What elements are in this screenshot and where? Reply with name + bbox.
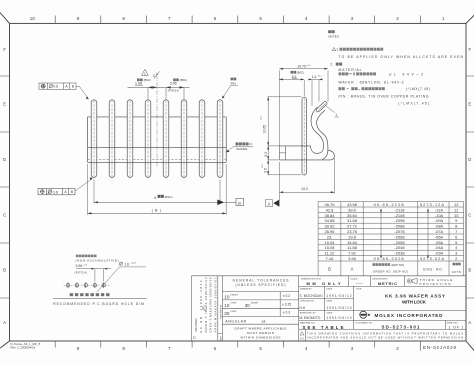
svg-text:(ºLMX(7,45): (ºLMX(7,45) bbox=[406, 87, 430, 91]
assembly centerline (dash-dot) bbox=[156, 75, 158, 167]
note 1 japanese line bbox=[332, 47, 336, 50]
right side rows bbox=[299, 286, 466, 329]
svg-text:CKTS: CKTS bbox=[452, 270, 461, 274]
svg-text:19.04: 19.04 bbox=[324, 240, 335, 245]
svg-text:DRAWN BY: DRAWN BY bbox=[300, 287, 312, 290]
svg-text:±3: ±3 bbox=[262, 319, 266, 323]
svg-text:-10A: -10A bbox=[435, 213, 444, 218]
left vertical dims 10.65 / 3.2 / 3.5 bbox=[268, 97, 302, 175]
svg-text:26.96: 26.96 bbox=[324, 229, 335, 234]
svg-text:TITLE: TITLE bbox=[356, 289, 362, 291]
svg-text:CHECKED BY: CHECKED BY bbox=[300, 301, 315, 303]
svg-text:30.92: 30.92 bbox=[324, 224, 335, 229]
svg-text:30: 30 bbox=[245, 303, 251, 308]
svg-text:-2048: -2048 bbox=[394, 245, 405, 250]
svg-text:(BSC): (BSC) bbox=[297, 71, 304, 75]
svg-text:APPROVED BY: APPROVED BY bbox=[300, 312, 316, 315]
section marker A bbox=[266, 200, 273, 207]
svg-text:8: 8 bbox=[122, 16, 125, 21]
svg-text:C: C bbox=[3, 213, 6, 218]
svg-text:1.4: 1.4 bbox=[312, 75, 317, 79]
svg-text:15.08: 15.08 bbox=[324, 245, 335, 250]
svg-text:23.76: 23.76 bbox=[347, 229, 358, 234]
svg-text:F: F bbox=[3, 47, 6, 52]
svg-text:PROJECTION: PROJECTION bbox=[420, 282, 451, 286]
third angle projection cell bbox=[407, 279, 417, 284]
proprietary note bbox=[300, 332, 304, 335]
svg-text:3: 3 bbox=[351, 16, 354, 21]
svg-text:10.75: 10.75 bbox=[297, 64, 306, 68]
svg-text:DESCRIPTION: DESCRIPTION bbox=[221, 304, 223, 318]
svg-text:30: 30 bbox=[224, 311, 230, 316]
svg-text:A: A bbox=[351, 267, 354, 272]
svg-text:-2068: -2068 bbox=[394, 234, 405, 239]
svg-text:31.68: 31.68 bbox=[347, 218, 358, 223]
wafer body top edge (behind pins) bbox=[88, 116, 227, 118]
svg-text:3.5: 3.5 bbox=[264, 168, 268, 173]
side pin bbox=[302, 97, 306, 175]
svg-text:A: A bbox=[3, 320, 6, 325]
revision strip bbox=[218, 276, 223, 341]
svg-text:UNDER: UNDER bbox=[251, 303, 259, 305]
svg-text:9: 9 bbox=[77, 16, 80, 21]
svg-text:UL 94V–2: UL 94V–2 bbox=[389, 72, 423, 76]
svg-text:( B ): ( B ) bbox=[152, 209, 162, 213]
svg-text:11.88: 11.88 bbox=[347, 245, 357, 250]
svg-text:3.2: 3.2 bbox=[264, 152, 268, 157]
svg-text:THIS DRAWING CONTAINS INFORMAT: THIS DRAWING CONTAINS INFORMATION THAT I… bbox=[307, 331, 463, 335]
svg-text:10.2: 10.2 bbox=[301, 187, 308, 191]
svg-text:2: 2 bbox=[396, 16, 399, 21]
svg-text:19.8: 19.8 bbox=[348, 234, 357, 239]
svg-text:SHEET NO.: SHEET NO. bbox=[447, 323, 459, 325]
wafer slab top edge with U-dip bbox=[280, 146, 324, 154]
svg-text:09-65-2128: 09-65-2128 bbox=[374, 202, 405, 207]
pin callout label bbox=[222, 78, 238, 99]
svg-text:B: B bbox=[3, 268, 6, 273]
svg-text:EN-02JA029: EN-02JA029 bbox=[423, 345, 456, 350]
svg-text:C: C bbox=[193, 335, 196, 340]
svg-text:2.: 2. bbox=[330, 63, 333, 67]
svg-text:C: C bbox=[468, 213, 471, 218]
svg-text:1991/06/10: 1991/06/10 bbox=[327, 306, 352, 310]
wafer hidden line (dashed, behind pins) bbox=[88, 159, 227, 161]
svg-text:WAFER : 66NYLON, UL-94V-2: WAFER : 66NYLON, UL-94V-2 bbox=[339, 81, 404, 85]
svg-text:REVISED: REVISED bbox=[194, 317, 198, 331]
pins 1-8 bbox=[91, 100, 223, 178]
svg-text:(EDP NO): (EDP NO) bbox=[392, 263, 405, 267]
svg-text:WITH LOCK: WITH LOCK bbox=[402, 299, 427, 304]
svg-text:-04A: -04A bbox=[435, 245, 444, 250]
svg-text:-03A: -03A bbox=[435, 251, 444, 256]
svg-text:46.76: 46.76 bbox=[324, 202, 335, 207]
svg-text:WITHIN DIMENSIONS: WITHIN DIMENSIONS bbox=[241, 336, 281, 340]
svg-text:1991/06/10: 1991/06/10 bbox=[327, 316, 352, 320]
dim A BSC (pin1 to pin8 centers) with datum B bbox=[94, 180, 243, 206]
svg-text:DATE: DATE bbox=[327, 312, 333, 315]
svg-text:27.72: 27.72 bbox=[347, 224, 358, 229]
svg-text:A: A bbox=[268, 201, 271, 206]
outer box bbox=[192, 276, 467, 341]
svg-text:(BSC): (BSC) bbox=[165, 195, 173, 199]
ditto arrows bbox=[381, 210, 428, 258]
svg-text:8: 8 bbox=[122, 346, 125, 351]
svg-text:34.88: 34.88 bbox=[324, 218, 335, 223]
svg-text:1: 1 bbox=[144, 72, 146, 76]
svg-text:L: L bbox=[156, 72, 158, 76]
svg-text:D: D bbox=[468, 157, 471, 162]
zone letters right bbox=[468, 47, 471, 325]
svg-text:4: 4 bbox=[305, 346, 308, 351]
svg-text:5: 5 bbox=[259, 16, 262, 21]
svg-text:(NON-ACCUMULATIVE): (NON-ACCUMULATIVE) bbox=[76, 259, 119, 263]
svg-text:(PITCH): (PITCH) bbox=[75, 271, 87, 275]
wafer slab bottom edge and right rounded corner bbox=[280, 151, 335, 160]
svg-text:UNDER: UNDER bbox=[230, 294, 238, 296]
svg-text:11.12: 11.12 bbox=[325, 251, 335, 256]
svg-text:1.8: 1.8 bbox=[124, 262, 129, 266]
svg-text:KK 3.96 WAFER ASSY: KK 3.96 WAFER ASSY bbox=[385, 293, 445, 298]
svg-text:-11A: -11A bbox=[435, 207, 443, 212]
svg-text:5273-02A: 5273-02A bbox=[420, 256, 444, 261]
svg-text:DOCUMENT NO.: DOCUMENT NO. bbox=[356, 323, 373, 325]
wafer slab left edge and step bbox=[280, 146, 286, 160]
svg-text:WAFER: WAFER bbox=[236, 147, 248, 151]
svg-text:9: 9 bbox=[77, 346, 80, 351]
svg-text:± 0.25: ± 0.25 bbox=[282, 303, 291, 307]
lock arm outer edge bbox=[311, 107, 324, 146]
svg-text:METRIC: METRIC bbox=[378, 281, 397, 286]
svg-text:(UNLESS SPECIFIED): (UNLESS SPECIFIED) bbox=[236, 283, 286, 287]
corner cut bottom-right bbox=[466, 341, 474, 351]
zone ticks top bbox=[55, 16, 420, 24]
svg-text:5.6: 5.6 bbox=[292, 75, 297, 79]
svg-text:(BSC): (BSC) bbox=[144, 78, 151, 82]
svg-text:DRWN.Y.IBATA 2009/06/23: DRWN.Y.IBATA 2009/06/23 bbox=[204, 277, 208, 332]
svg-text:Rev. C 2008/04/15: Rev. C 2008/04/15 bbox=[11, 346, 36, 350]
svg-text:43.56: 43.56 bbox=[347, 202, 358, 207]
svg-text:DATE: DATE bbox=[327, 300, 333, 303]
svg-text:B: B bbox=[328, 267, 331, 272]
revision strip rotated text bbox=[194, 277, 222, 340]
svg-text:TO BE APPLIED ONLY WHEN ALLCKT: TO BE APPLIED ONLY WHEN ALLCKTS ARE EVEN… bbox=[339, 55, 466, 59]
svg-text:-05A: -05A bbox=[435, 240, 444, 245]
svg-text:0.6: 0.6 bbox=[53, 85, 58, 89]
note flag triangle 1 bbox=[142, 69, 149, 76]
holes row bbox=[64, 284, 110, 286]
corner cut top-left bbox=[0, 13, 10, 24]
svg-text:SCALE: SCALE bbox=[350, 277, 358, 280]
svg-text:10.65: 10.65 bbox=[262, 125, 266, 134]
zone ticks right bbox=[466, 76, 474, 298]
svg-text:PIN : BRASS, TIN OVER COPPER P: PIN : BRASS, TIN OVER COPPER PLATING bbox=[339, 94, 429, 98]
svg-text:3.96: 3.96 bbox=[76, 264, 83, 268]
svg-text:GENERAL TOLERANCES: GENERAL TOLERANCES bbox=[233, 279, 290, 283]
hole dia callout bbox=[119, 262, 122, 265]
svg-text:A 3: A 3 bbox=[300, 337, 304, 341]
svg-text:ANGULAR: ANGULAR bbox=[225, 319, 246, 323]
svg-text:M. ENOMOTO: M. ENOMOTO bbox=[300, 316, 321, 320]
wafer mid edge and bottom edge (over pins) bbox=[88, 148, 227, 163]
svg-text:12: 12 bbox=[454, 202, 459, 207]
zone numbers bottom bbox=[77, 346, 400, 351]
svg-text:-2108: -2108 bbox=[394, 213, 405, 218]
svg-text:± 0.2: ± 0.2 bbox=[283, 294, 290, 298]
svg-text:42.8: 42.8 bbox=[326, 207, 335, 212]
svg-text:38.84: 38.84 bbox=[324, 213, 335, 218]
lock arm inner edge bbox=[317, 110, 328, 159]
svg-text:DESIGN UNITS: DESIGN UNITS bbox=[372, 278, 388, 280]
dim (B) overall wafer length bbox=[88, 164, 227, 215]
svg-text:23.: 23. bbox=[327, 234, 333, 239]
svg-text:2: 2 bbox=[396, 346, 399, 351]
svg-text:± 0.3: ± 0.3 bbox=[283, 311, 290, 315]
svg-text:7.92: 7.92 bbox=[348, 251, 357, 256]
svg-text:-2078: -2078 bbox=[394, 229, 405, 234]
svg-text:OVER: OVER bbox=[230, 311, 236, 313]
svg-text:S. MOCHIZUKI: S. MOCHIZUKI bbox=[300, 294, 323, 298]
svg-text:CHKD.T.NAKAJIMA 2009/06/25: CHKD.T.NAKAJIMA 2009/06/25 bbox=[209, 277, 213, 332]
svg-text:E: E bbox=[468, 102, 471, 107]
svg-text:(BSC): (BSC) bbox=[180, 78, 187, 82]
svg-text:10: 10 bbox=[454, 213, 459, 218]
svg-text:-06A: -06A bbox=[435, 234, 444, 239]
svg-text:(PITCH): (PITCH) bbox=[168, 89, 179, 93]
svg-text:10: 10 bbox=[224, 303, 230, 308]
frame name note bottom-left bbox=[11, 342, 41, 350]
svg-text:ENG. NO.: ENG. NO. bbox=[423, 267, 443, 271]
svg-text:DATE: DATE bbox=[327, 287, 333, 290]
molex logo and company row bbox=[360, 311, 370, 318]
svg-text:SD-5273-001: SD-5273-001 bbox=[382, 325, 421, 330]
svg-text:DIMENSION STYLE: DIMENSION STYLE bbox=[301, 278, 321, 280]
svg-text:REV: REV bbox=[221, 335, 223, 340]
pin centerlines (dashed) bbox=[94, 100, 220, 176]
svg-text:10: 10 bbox=[30, 16, 36, 21]
wafer body side edges bbox=[88, 117, 227, 162]
svg-text:1 OF 1: 1 OF 1 bbox=[449, 325, 464, 329]
svg-text:1.98: 1.98 bbox=[135, 82, 142, 86]
svg-text:-2098: -2098 bbox=[394, 218, 405, 223]
svg-text:INCORPORATED AND SHOULD NOT BE: INCORPORATED AND SHOULD NOT BE USED WITH… bbox=[307, 336, 463, 340]
svg-text:1991/05/12: 1991/05/12 bbox=[327, 294, 352, 298]
svg-text:7: 7 bbox=[168, 16, 171, 21]
svg-text:-2118: -2118 bbox=[395, 207, 406, 212]
svg-text:C: C bbox=[153, 74, 156, 78]
svg-text:1: 1 bbox=[335, 113, 337, 117]
svg-text:B: B bbox=[238, 200, 241, 205]
datum B feature triangle and box bbox=[217, 200, 224, 206]
svg-text:-09A: -09A bbox=[435, 218, 444, 223]
corner cut bottom-left bbox=[0, 341, 10, 348]
dim 1.98 BSC (pin4 center to centerline) bbox=[128, 78, 190, 100]
GD&T position box bottom bbox=[38, 189, 75, 195]
svg-text:1: 1 bbox=[442, 16, 445, 21]
svg-text:RECOMMENDED P.C.BOARD HOLE: RECOMMENDED P.C.BOARD HOLE DIM. bbox=[53, 302, 146, 306]
svg-text:D: D bbox=[3, 157, 6, 162]
corner cut top-right bbox=[466, 15, 474, 23]
GD&T position box top bbox=[39, 83, 76, 89]
svg-text:MUST REMAIN: MUST REMAIN bbox=[247, 331, 274, 335]
svg-text:3: 3 bbox=[351, 346, 354, 351]
captions bbox=[70, 293, 110, 296]
svg-text:MATERIAL: MATERIAL bbox=[339, 68, 362, 72]
svg-text:39.6: 39.6 bbox=[348, 207, 357, 212]
tolerance block bbox=[298, 276, 300, 341]
dim 10.2 below side view bbox=[280, 158, 335, 200]
dim 5.6 BSC bbox=[291, 71, 294, 74]
svg-text:7: 7 bbox=[168, 346, 171, 351]
svg-text:-2058: -2058 bbox=[394, 240, 405, 245]
svg-text:-07A: -07A bbox=[435, 229, 444, 234]
svg-text:OVER: OVER bbox=[230, 303, 236, 305]
svg-text:-2088: -2088 bbox=[394, 224, 405, 229]
svg-text:ORDER NO. (EDP NO): ORDER NO. (EDP NO) bbox=[373, 269, 408, 273]
side pin centerline bbox=[303, 99, 305, 175]
svg-text:6: 6 bbox=[214, 346, 217, 351]
svg-text:E: E bbox=[3, 102, 6, 107]
svg-text:(ºLMX(7,45): (ºLMX(7,45) bbox=[398, 101, 429, 105]
svg-text:15.84: 15.84 bbox=[347, 240, 358, 245]
svg-text:SEE TABLE: SEE TABLE bbox=[303, 325, 344, 330]
svg-text:35.64: 35.64 bbox=[347, 213, 358, 218]
centerline CL symbol bbox=[153, 71, 160, 78]
zone ticks bottom bbox=[55, 341, 420, 351]
svg-text:DRAFT WHERE APPLICABLE: DRAFT WHERE APPLICABLE bbox=[235, 326, 287, 330]
svg-text:+0.05: +0.05 bbox=[131, 263, 137, 265]
svg-text:1.: 1. bbox=[336, 48, 339, 52]
svg-text:NOTES: NOTES bbox=[328, 35, 339, 39]
svg-text:A: A bbox=[468, 320, 471, 325]
svg-text:APPR.M.NAKATA 2009/07/01: APPR.M.NAKATA 2009/07/01 bbox=[214, 277, 218, 332]
wafer label with leader bbox=[226, 142, 253, 152]
svg-text:3.96: 3.96 bbox=[348, 256, 357, 261]
zone ticks left bbox=[0, 76, 10, 298]
zone letters left bbox=[3, 47, 6, 325]
svg-text:B: B bbox=[468, 268, 471, 273]
svg-text:-08A: -08A bbox=[435, 224, 444, 229]
lock latch tip bar bbox=[316, 102, 327, 112]
dim 3.96 BSC PITCH (pin5 to pin6) bbox=[166, 78, 187, 100]
svg-text:7.16: 7.16 bbox=[326, 256, 335, 261]
note 1 balloon leader bbox=[326, 106, 334, 112]
svg-text:3.96: 3.96 bbox=[170, 82, 177, 86]
svg-text:PIN: PIN bbox=[231, 82, 236, 86]
svg-text:4: 4 bbox=[305, 16, 308, 21]
svg-text:10: 10 bbox=[224, 295, 230, 300]
svg-text:6: 6 bbox=[214, 16, 217, 21]
zone numbers top bbox=[30, 16, 445, 21]
svg-text:——: —— bbox=[356, 281, 364, 285]
svg-text:F: F bbox=[469, 47, 472, 52]
svg-text:5: 5 bbox=[259, 346, 262, 351]
svg-text:H.H: H.H bbox=[300, 306, 306, 310]
svg-text:MOLEX INCORPORATED: MOLEX INCORPORATED bbox=[375, 313, 444, 318]
svg-text:5273-12A: 5273-12A bbox=[420, 202, 444, 207]
svg-text:0.6: 0.6 bbox=[53, 190, 58, 194]
svg-text:-2038: -2038 bbox=[394, 251, 405, 256]
svg-text:09-65-2028: 09-65-2028 bbox=[374, 256, 405, 261]
